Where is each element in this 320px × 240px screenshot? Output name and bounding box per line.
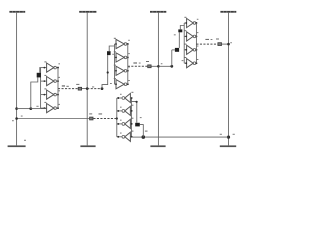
input tap wire of amp U23	[115, 70, 117, 72]
output stub wire of amp U23	[127, 70, 128, 72]
pin label of amp U12	[58, 76, 60, 79]
input tap junction of amp U34	[185, 62, 187, 64]
output junction of amp U11	[57, 67, 59, 69]
label right of rail C	[161, 62, 163, 65]
U3 feed upper component blob	[178, 29, 182, 32]
pin label of amp U24	[128, 79, 130, 82]
output junction of amp U14	[57, 107, 59, 109]
junction of W2 on rail C	[157, 65, 160, 68]
net value label above W5	[89, 113, 92, 114]
resistor R1 in series on W1	[78, 87, 82, 91]
input tap junction of amp U23	[115, 70, 117, 72]
instance label of amp U11	[44, 61, 46, 62]
instance label of amp U31	[184, 17, 186, 18]
wire from rail A junction to node N4	[17, 108, 31, 110]
net value label above W2	[139, 62, 141, 65]
pin label of amp U31	[197, 18, 199, 21]
pin label of amp U23	[128, 66, 130, 69]
label left of rail D bottom junction	[220, 133, 222, 136]
input tap junction of amp U33	[185, 49, 187, 51]
instance label of amp U41	[131, 92, 133, 93]
output stub wire of amp U41	[117, 97, 122, 99]
output stub wire of amp U43	[117, 123, 122, 125]
input tap junction of amp U42	[131, 110, 133, 112]
output stub wire of amp U21	[127, 43, 128, 45]
output junction of amp U33	[195, 49, 197, 51]
instance label of amp U34	[184, 57, 186, 58]
input tap junction of amp U31	[185, 22, 187, 24]
instance label of amp U12	[44, 75, 46, 76]
instance label of amp U42	[131, 105, 133, 106]
wire W4 from N3 to U4 input bus bottom	[131, 136, 143, 138]
pin label of amp U21	[128, 39, 130, 42]
pin label of amp U22	[128, 52, 130, 55]
wire from N4 to amp U14 input	[31, 108, 47, 110]
resistor R1 label	[76, 84, 79, 85]
label above node N3	[145, 131, 148, 132]
net label bar at top of rail D	[220, 11, 236, 13]
output junction of amp U12	[57, 80, 59, 82]
resistor R2 in series on W2	[147, 65, 151, 69]
output junction of amp U21	[127, 43, 129, 45]
instance label of amp U22	[114, 51, 116, 52]
U2 input feed component blob	[107, 51, 111, 55]
rail C vertical wire	[157, 13, 159, 146]
net label bar at bottom of rail C	[150, 145, 165, 147]
net value label above W1	[66, 86, 68, 87]
output bus of U2	[127, 44, 129, 84]
input tap junction of amp U11	[44, 67, 46, 69]
input tap junction of amp U14	[44, 107, 46, 109]
net name label above W3	[205, 39, 209, 40]
input tap junction of amp U13	[44, 94, 46, 96]
instance label of amp U32	[184, 30, 186, 31]
wire W5 from U4 output bus to resistor	[93, 118, 116, 120]
pin label of amp U43	[120, 119, 122, 122]
input tap junction of amp U44	[131, 136, 133, 138]
inverter amp U12	[47, 77, 57, 86]
input tap junction of amp U41	[131, 97, 133, 99]
pin label of amp U42	[120, 106, 122, 109]
label left of rail A bottom	[24, 139, 26, 142]
junction of W3 on rail D	[227, 43, 230, 46]
U3 feed lower component blob	[175, 48, 179, 52]
rail A vertical wire	[16, 13, 18, 146]
wire W2 continuing to node N2	[158, 65, 171, 67]
net name label above W5	[99, 113, 103, 114]
wire from U1 feed blob to input bus	[39, 68, 42, 73]
net label bar at top of rail A	[9, 11, 25, 13]
wire jog into U3 lower blob	[172, 49, 175, 51]
pin label of amp U34	[197, 58, 199, 61]
junction of W5 on rail A	[15, 117, 18, 120]
output junction of amp U23	[127, 70, 129, 72]
output stub wire of amp U32	[195, 35, 198, 37]
junction of W1 on rail B	[86, 87, 89, 90]
input tap wire of amp U42	[130, 110, 131, 112]
input tap wire of amp U12	[41, 80, 47, 82]
output junction of amp U43	[117, 123, 119, 125]
wire W3 from R3 to rail D	[222, 43, 229, 45]
input tap wire of amp U13	[41, 94, 47, 96]
instance label of amp U21	[114, 38, 116, 39]
output bus of U3	[195, 23, 197, 63]
wire from U2 feed blob to input bus	[109, 46, 114, 51]
node N4 junction dot	[29, 107, 32, 110]
wire from U4 feed blob to input bus	[132, 102, 137, 123]
output junction of amp U24	[127, 83, 129, 85]
riser wire from N2 to U3 lower blob	[171, 50, 173, 66]
riser wire from N1 to U2 feed blob	[102, 55, 108, 89]
label above U1 input wire	[36, 105, 38, 108]
riser wire from N3 to U4 feed blob	[140, 125, 144, 138]
net name label above W2	[133, 62, 137, 63]
resistor R4 in series on W5	[89, 117, 93, 121]
pin label of amp U13	[58, 89, 60, 92]
label speck right of U2 feed blob	[112, 53, 114, 56]
resistor R3 label	[216, 39, 219, 40]
wire W1 from R1 to rail B	[82, 88, 87, 90]
output stub wire of amp U34	[195, 62, 198, 64]
output bus of U1	[57, 68, 59, 109]
input tap wire of amp U43	[130, 123, 131, 125]
U1 input feed component blob	[37, 73, 41, 78]
inverter amp U23	[116, 66, 127, 75]
output stub wire of amp U14	[56, 107, 58, 109]
input bus of U1	[40, 68, 42, 109]
node N1 junction dot	[101, 87, 104, 90]
label right of rail D junction	[230, 41, 232, 44]
instance label of amp U14	[44, 102, 46, 103]
net label bar at bottom of rail D	[220, 145, 236, 147]
output stub wire of amp U33	[195, 49, 198, 51]
output stub wire of amp U44	[117, 136, 122, 138]
rail B vertical wire	[86, 13, 88, 146]
output stub wire of amp U11	[56, 67, 58, 69]
inverter amp U33	[187, 45, 196, 54]
inverter amp U44	[122, 132, 130, 141]
inverter amp U22	[116, 53, 127, 62]
output stub wire of amp U22	[127, 56, 128, 58]
inverter amp U11	[47, 63, 57, 72]
input tap wire of amp U32	[184, 35, 186, 37]
input bus of U2	[114, 44, 116, 84]
inverter amp U21	[116, 39, 127, 48]
wire W2 from R2 to rail C	[152, 65, 159, 67]
net label bar at top of rail C	[150, 11, 166, 13]
net label bar at bottom of rail B	[80, 145, 95, 147]
inverter amp U41	[122, 93, 130, 102]
pin label of amp U33	[197, 45, 199, 48]
input bus of U4	[130, 98, 132, 137]
rail D vertical wire	[228, 13, 230, 146]
input tap wire of amp U34	[184, 62, 186, 64]
pin label of amp U11	[58, 62, 60, 65]
inverter amp U32	[187, 32, 196, 41]
input tap junction of amp U22	[115, 57, 117, 59]
input tap wire of amp U24	[115, 83, 117, 85]
input tap wire of amp U11	[41, 67, 47, 69]
output junction of amp U31	[195, 22, 197, 24]
junction dot at U4 feed top	[136, 101, 138, 103]
riser wire between U3 feed blobs	[178, 32, 180, 48]
pin label of amp U14	[58, 103, 60, 106]
input tap wire of amp U41	[130, 97, 131, 99]
wire W3 from U3 output bus	[196, 43, 217, 45]
junction on rail D bottom	[227, 136, 230, 139]
wire W4 from rail D to node N3	[143, 136, 228, 138]
inverter amp U43	[122, 119, 130, 128]
resistor R3 in series on W3	[218, 42, 222, 46]
output stub wire of amp U12	[56, 80, 58, 82]
instance label of amp U23	[114, 65, 116, 66]
label speck near riser	[110, 82, 112, 85]
pin label of amp U44	[120, 132, 122, 135]
output bus of U4	[116, 98, 118, 137]
node N3 junction dot	[142, 135, 146, 139]
inverter amp U24	[116, 80, 127, 89]
input tap junction of amp U43	[131, 123, 133, 125]
junction on rail A for U1 input wire	[15, 107, 18, 110]
pin label of amp U41	[120, 93, 122, 96]
output junction of amp U42	[117, 110, 119, 112]
input tap wire of amp U33	[184, 49, 186, 51]
inverter amp U31	[187, 18, 196, 27]
wire from U3 upper blob to input bus	[180, 26, 184, 30]
input tap junction of amp U12	[44, 80, 46, 82]
inverter amp U14	[47, 104, 57, 113]
output junction of amp U32	[195, 35, 197, 37]
wire W5 from resistor to rail A	[17, 118, 90, 120]
output stub wire of amp U13	[56, 94, 58, 96]
input tap wire of amp U14	[41, 107, 47, 109]
output junction of amp U44	[117, 136, 119, 138]
net name label above W1	[62, 85, 65, 86]
inverter amp U34	[187, 59, 196, 68]
label speck near U3 feed riser	[182, 59, 184, 62]
input tap junction of amp U24	[115, 83, 117, 85]
resistor R2 label	[146, 61, 149, 62]
label above W5 near rail A	[21, 115, 23, 118]
net label bar at top of rail B	[79, 11, 96, 13]
label right of rail D bottom junction	[233, 133, 235, 136]
wire W1 continuing to node N1	[87, 88, 102, 90]
output junction of amp U34	[195, 62, 197, 64]
output junction of amp U41	[117, 97, 119, 99]
label speck left of U3 upper blob	[174, 33, 176, 36]
label below W5 near rail A	[12, 119, 14, 122]
output stub wire of amp U31	[195, 22, 198, 24]
instance label of amp U43	[131, 118, 133, 119]
output stub wire of amp U24	[127, 83, 128, 85]
tiny label above right part of W1	[92, 86, 94, 89]
input tap wire of amp U22	[115, 56, 117, 58]
output junction of amp U13	[57, 94, 59, 96]
pin label of amp U32	[197, 31, 199, 34]
output stub wire of amp U42	[117, 110, 122, 112]
instance label of amp U44	[131, 131, 133, 132]
label speck right of U4 feed riser	[140, 116, 142, 119]
input bus of U3	[183, 23, 185, 63]
wire W2 from U2 output bus	[128, 65, 148, 67]
input tap junction of amp U21	[115, 43, 117, 45]
U4 input feed component blob	[135, 123, 140, 127]
input tap wire of amp U21	[115, 43, 117, 45]
inverter amp U42	[122, 106, 130, 115]
input tap wire of amp U44	[130, 136, 131, 138]
net value label above W3	[211, 38, 213, 41]
junction of W5 on U4 output bus	[116, 117, 118, 119]
instance label of amp U33	[184, 44, 186, 45]
output junction of amp U22	[127, 56, 129, 58]
instance label of amp U24	[114, 78, 116, 79]
input tap wire of amp U31	[184, 22, 186, 24]
net label bar at bottom of rail A	[8, 145, 26, 147]
input tap junction of amp U32	[185, 36, 187, 38]
wire W1 from U1 output bus	[58, 88, 78, 90]
riser wire from N4 to U1 feed blob	[31, 77, 38, 108]
inverter amp U13	[47, 90, 57, 99]
node N2 junction dot	[170, 65, 173, 68]
instance label of amp U13	[44, 88, 46, 89]
junction dot on U2 feed riser	[107, 71, 109, 73]
